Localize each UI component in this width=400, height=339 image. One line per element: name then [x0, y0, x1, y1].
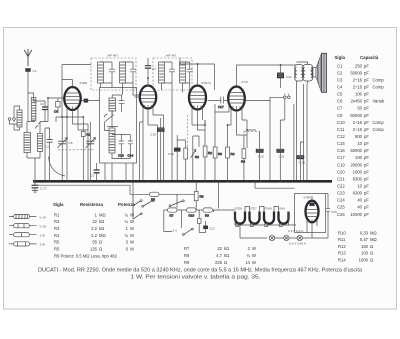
svg-text:kΩ: kΩ — [99, 219, 104, 224]
wire: speaker voice coil — [311, 70, 313, 75]
svg-text:Variab: Variab — [373, 99, 385, 104]
pickup jack — [270, 94, 290, 120]
svg-text:1 W. Per tensioni valvole v. t: 1 W. Per tensioni valvole v. tabella a p… — [131, 275, 261, 281]
svg-text:W: W — [130, 247, 134, 252]
svg-text:R10: R10 — [338, 230, 346, 235]
switch S2 — [133, 194, 185, 219]
heater V3 — [264, 207, 274, 224]
speaker LS — [313, 53, 327, 92]
svg-text:C 26: C 26 — [299, 161, 306, 165]
svg-text:R2: R2 — [208, 151, 212, 155]
output transformer T1 — [295, 62, 313, 88]
svg-text:6,3 V 0,45 A: 6,3 V 0,45 A — [289, 241, 307, 245]
capacitor C2 — [45, 128, 53, 181]
svg-text:½ W: ½ W — [40, 225, 46, 229]
switch S3 — [183, 228, 194, 235]
svg-text:C1: C1 — [33, 69, 37, 73]
svg-text:MΩ: MΩ — [370, 230, 377, 235]
resistor table rows — [54, 212, 134, 258]
capacitor C4 — [81, 99, 100, 103]
svg-text:MF 467: MF 467 — [108, 54, 119, 58]
ground bus — [33, 180, 332, 183]
resistor table header — [53, 202, 135, 207]
capacitor C19 — [150, 118, 165, 181]
legend resistor 3 W — [9, 242, 45, 247]
svg-text:40: 40 — [357, 205, 362, 210]
svg-text:Comp: Comp — [373, 120, 385, 125]
svg-text:R3: R3 — [218, 152, 222, 156]
svg-text:pF: pF — [364, 127, 369, 132]
svg-text:10: 10 — [357, 184, 362, 189]
svg-text:C1: C1 — [337, 63, 343, 68]
svg-text:10000: 10000 — [350, 212, 362, 217]
tube V5 6TB4 — [304, 196, 319, 239]
svg-text:2÷16: 2÷16 — [353, 85, 363, 90]
svg-text:100: 100 — [355, 155, 363, 160]
svg-text:1000: 1000 — [359, 258, 369, 263]
wire: MF2 leads — [162, 83, 190, 181]
svg-text:225: 225 — [215, 260, 223, 265]
svg-text:R5: R5 — [151, 197, 155, 201]
capacitor C4 — [123, 62, 137, 83]
capacitor C23 — [276, 120, 284, 181]
svg-text:Ω: Ω — [370, 258, 373, 263]
svg-text:R11: R11 — [338, 237, 346, 242]
svg-text:Ω: Ω — [99, 247, 102, 252]
svg-text:3 W: 3 W — [40, 243, 46, 247]
svg-text:pF: pF — [364, 169, 369, 174]
svg-text:pF: pF — [364, 134, 369, 139]
capacitor C5 — [90, 163, 100, 181]
svg-text:C2: C2 — [40, 102, 44, 106]
resistor R9 — [203, 208, 213, 217]
coil L6 — [159, 62, 165, 83]
svg-text:20000: 20000 — [350, 162, 362, 167]
svg-text:kΩ: kΩ — [224, 246, 229, 251]
svg-text:DUCATI - Mod. RR 2250. Onde me: DUCATI - Mod. RR 2250. Onde medie da 520… — [38, 268, 362, 274]
svg-text:W: W — [130, 219, 134, 224]
wire: gang link (dashed) — [58, 149, 95, 151]
RF coil upper — [28, 93, 36, 122]
svg-text:0,33: 0,33 — [360, 230, 369, 235]
svg-text:22: 22 — [217, 246, 222, 251]
capacitor C27 to ground — [32, 181, 47, 190]
svg-text:pF: pF — [364, 92, 369, 97]
svg-text:pF: pF — [364, 155, 369, 160]
svg-text:C2: C2 — [45, 145, 49, 149]
resistor table R7 R8 R9 — [184, 246, 256, 265]
capacitor C10 trimmer — [112, 95, 124, 110]
capacitor C25 — [326, 194, 337, 239]
capacitor C1 — [25, 68, 36, 121]
svg-text:2x450: 2x450 — [351, 99, 363, 104]
wire: RF interconnects — [48, 117, 83, 128]
svg-text:pF: pF — [364, 85, 369, 90]
svg-text:pF: pF — [364, 113, 369, 118]
wire: B+ rail — [229, 65, 296, 112]
svg-text:4,7: 4,7 — [216, 253, 222, 258]
resistor R4 — [226, 125, 235, 181]
svg-text:R4: R4 — [54, 233, 60, 238]
tube V1 6TE8 — [64, 80, 80, 131]
svg-text:500: 500 — [355, 134, 363, 139]
junction dots — [34, 180, 304, 183]
svg-text:C7: C7 — [152, 67, 156, 71]
svg-text:50: 50 — [357, 106, 362, 111]
antenna primary coil — [14, 106, 22, 130]
svg-text:C6: C6 — [69, 141, 73, 145]
terminal A — [8, 118, 16, 124]
capacitor C17 — [208, 97, 230, 110]
variable capacitor C6b — [86, 122, 96, 181]
svg-text:125: 125 — [90, 247, 98, 252]
wire: curved gang cord — [49, 157, 66, 177]
resistor R7 — [241, 135, 246, 181]
svg-text:C17: C17 — [218, 105, 224, 109]
svg-text:C16: C16 — [168, 152, 174, 156]
svg-text:2÷16: 2÷16 — [353, 77, 363, 82]
svg-text:R9: R9 — [205, 213, 209, 217]
svg-text:R5: R5 — [54, 247, 60, 252]
svg-text:pF: pF — [364, 120, 369, 125]
svg-text:Comp: Comp — [373, 85, 385, 90]
svg-text:pF: pF — [364, 162, 369, 167]
resistor R1 (grid leak) — [81, 117, 90, 181]
svg-text:C19: C19 — [150, 133, 156, 137]
svg-text:R2: R2 — [54, 219, 60, 224]
svg-text:pF: pF — [364, 63, 369, 68]
resistor R3 — [213, 104, 222, 181]
wire: V3 grid top — [180, 58, 215, 90]
capacitor C12 — [183, 62, 193, 83]
svg-text:C21: C21 — [286, 75, 292, 79]
legend resistor 1/4 W — [9, 214, 46, 219]
svg-text:50000: 50000 — [350, 113, 362, 118]
svg-text:Ω: Ω — [224, 260, 227, 265]
svg-text:40: 40 — [357, 198, 362, 203]
svg-text:W: W — [130, 226, 134, 231]
svg-text:100: 100 — [355, 92, 363, 97]
svg-text:6TE8: 6TE8 — [235, 207, 243, 211]
svg-text:2÷16: 2÷16 — [353, 120, 363, 125]
capacitor C21 — [277, 65, 292, 88]
svg-text:C11: C11 — [337, 127, 345, 132]
heater socket terminals — [236, 224, 282, 227]
svg-text:55: 55 — [92, 240, 97, 245]
svg-text:R13: R13 — [338, 251, 346, 256]
svg-text:μF: μF — [364, 198, 369, 203]
svg-text:6 V6: 6 V6 — [242, 80, 249, 84]
svg-text:C6: C6 — [337, 99, 343, 104]
svg-text:C17: C17 — [337, 155, 345, 160]
svg-text:C5: C5 — [90, 174, 94, 178]
svg-text:kΩ: kΩ — [224, 253, 229, 258]
svg-text:C21: C21 — [337, 176, 345, 181]
svg-text:C4: C4 — [337, 85, 343, 90]
svg-text:10: 10 — [357, 141, 362, 146]
svg-text:2,2: 2,2 — [91, 233, 97, 238]
svg-text:R6: R6 — [195, 155, 199, 159]
svg-text:R1: R1 — [87, 133, 91, 137]
svg-text:W: W — [252, 260, 256, 265]
svg-text:W: W — [252, 253, 256, 258]
legend resistor 1/2 W — [9, 224, 46, 229]
wire: detector — [192, 120, 205, 130]
svg-text:C16: C16 — [337, 148, 345, 153]
svg-text:R8: R8 — [184, 253, 190, 258]
heater V2 — [249, 207, 259, 224]
svg-text:Ω: Ω — [99, 240, 102, 245]
svg-text:2÷16: 2÷16 — [353, 127, 363, 132]
ground — [32, 190, 38, 192]
svg-text:Ω: Ω — [370, 244, 373, 249]
svg-text:Comp: Comp — [373, 77, 385, 82]
svg-text:pF: pF — [364, 148, 369, 153]
svg-text:C2: C2 — [337, 70, 343, 75]
svg-text:MΩ: MΩ — [99, 212, 106, 217]
svg-text:W: W — [130, 212, 134, 217]
svg-text:W: W — [130, 233, 134, 238]
wire: V1 top cap — [62, 65, 91, 118]
heater V1 — [235, 207, 245, 224]
svg-text:¼: ¼ — [247, 253, 251, 258]
wire: V2 leads — [135, 97, 164, 181]
IF transformer MF1 box — [91, 54, 136, 90]
rectifier box — [295, 194, 326, 233]
svg-text:pF: pF — [364, 70, 369, 75]
capacitor C11 — [162, 62, 176, 83]
tube V3 6TE7 — [189, 64, 206, 130]
svg-text:C23: C23 — [279, 155, 285, 159]
svg-text:R4: R4 — [241, 160, 245, 164]
capacitor table header — [335, 55, 379, 60]
resistor R5 — [150, 192, 160, 201]
svg-text:W: W — [130, 240, 134, 245]
svg-text:C5: C5 — [337, 92, 343, 97]
svg-text:μF: μF — [364, 184, 369, 189]
svg-text:6300: 6300 — [353, 176, 363, 181]
svg-text:pF: pF — [364, 141, 369, 146]
svg-text:C26: C26 — [337, 212, 345, 217]
svg-text:Resistenza: Resistenza — [80, 202, 103, 207]
pilot lamps — [269, 235, 302, 240]
svg-text:kΩ: kΩ — [99, 226, 104, 231]
resistor R8 — [194, 181, 203, 210]
svg-text:Comp: Comp — [373, 127, 385, 132]
svg-text:C7: C7 — [337, 106, 343, 111]
tube V4 6V6 — [228, 65, 245, 135]
potentiometer R6 — [184, 140, 199, 181]
wire: osc box to bus — [105, 163, 133, 181]
svg-text:100: 100 — [361, 251, 369, 256]
svg-text:C23: C23 — [337, 191, 345, 196]
wire: AF path — [177, 136, 199, 181]
svg-text:C10: C10 — [337, 120, 345, 125]
antenna — [24, 49, 32, 66]
resistor R11 — [197, 210, 201, 233]
wire: dropper row — [164, 194, 235, 231]
capacitor C20 — [256, 131, 264, 181]
svg-text:6TB4: 6TB4 — [304, 196, 312, 200]
IF transformer MF2 box — [153, 54, 192, 90]
coil L4 — [109, 98, 116, 111]
svg-text:pF: pF — [364, 176, 369, 181]
svg-text:R3: R3 — [54, 226, 60, 231]
svg-text:pF: pF — [364, 106, 369, 111]
variable capacitor C6a — [58, 117, 73, 181]
coil L3 — [120, 62, 126, 83]
resistor R10 — [187, 208, 197, 217]
svg-text:50000: 50000 — [350, 70, 362, 75]
svg-text:6300: 6300 — [353, 191, 363, 196]
trimmer C3 — [54, 98, 60, 114]
svg-text:pF: pF — [364, 99, 369, 104]
svg-text:C3: C3 — [337, 77, 343, 82]
wire: AVC dashed — [244, 131, 260, 135]
svg-text:2,2: 2,2 — [91, 226, 97, 231]
svg-text:0,47: 0,47 — [360, 237, 369, 242]
svg-text:1 W: 1 W — [40, 234, 46, 238]
svg-text:pF: pF — [364, 212, 369, 217]
capacitor C14 — [128, 135, 134, 158]
svg-text:R14: R14 — [338, 258, 346, 263]
svg-text:Ω: Ω — [370, 251, 373, 256]
svg-text:R7: R7 — [184, 246, 190, 251]
svg-text:R12: R12 — [338, 244, 346, 249]
legend resistor 1 W — [9, 233, 45, 238]
svg-text:¼: ¼ — [125, 233, 129, 238]
tube V2 6TM8 — [140, 78, 156, 125]
wire: V1 cathode network — [56, 117, 88, 181]
svg-text:C3: C3 — [54, 110, 58, 114]
resistor R2 (diode load) — [203, 120, 212, 181]
svg-text:R1: R1 — [54, 212, 60, 217]
svg-text:C24: C24 — [337, 198, 345, 203]
switch S1 — [104, 111, 118, 131]
svg-text:Sigla: Sigla — [53, 202, 64, 207]
capacitor C22 — [199, 221, 215, 233]
svg-text:pF: pF — [364, 191, 369, 196]
svg-text:R10: R10 — [189, 213, 195, 217]
svg-text:150: 150 — [361, 244, 369, 249]
wire: plate supply rail — [243, 84, 307, 181]
svg-text:14: 14 — [245, 260, 250, 265]
capacitor C7 — [145, 58, 162, 78]
svg-text:6TM8: 6TM8 — [264, 207, 272, 211]
svg-text:R7: R7 — [170, 213, 174, 217]
capacitor C3 — [101, 62, 116, 83]
antenna coil L1 — [24, 122, 48, 181]
coil L5 — [109, 128, 115, 153]
svg-text:22: 22 — [92, 219, 97, 224]
svg-text:C12: C12 — [337, 134, 345, 139]
svg-text:W: W — [252, 246, 256, 251]
svg-text:Potenza: Potenza — [118, 202, 135, 207]
svg-text:6TE7A: 6TE7A — [202, 81, 212, 85]
wire: V4 grid network — [215, 112, 247, 148]
svg-text:C22: C22 — [337, 184, 345, 189]
svg-text:¼: ¼ — [125, 212, 129, 217]
svg-text:R6 Potenz. 0,5 MΩ Lesa, tipo: R6 Potenz. 0,5 MΩ Lesa, tipo 482 — [54, 254, 118, 259]
svg-text:MΩ: MΩ — [370, 237, 377, 242]
svg-text:C22: C22 — [209, 227, 215, 231]
svg-text:C25: C25 — [337, 205, 345, 210]
wire: oscillator internals — [105, 110, 131, 159]
coil L7 — [180, 62, 186, 83]
svg-text:6TE7: 6TE7 — [249, 207, 257, 211]
coil L2 — [98, 62, 104, 83]
wire: MF1 leads — [101, 83, 141, 97]
junction dots (wire crossings) — [47, 63, 281, 131]
svg-text:μF: μF — [364, 205, 369, 210]
svg-text:C 27: C 27 — [40, 187, 47, 191]
svg-text:C20: C20 — [258, 155, 264, 159]
svg-text:6V6: 6V6 — [280, 207, 286, 211]
svg-text:R9: R9 — [184, 260, 190, 265]
wire: RF grid — [45, 98, 64, 181]
heater V4 — [279, 207, 289, 224]
svg-text:MΩ: MΩ — [99, 233, 106, 238]
svg-text:6,3 V 0,3 A: 6,3 V 0,3 A — [288, 229, 304, 233]
svg-text:R5: R5 — [54, 240, 60, 245]
svg-text:MF 467: MF 467 — [166, 54, 177, 58]
svg-text:6TE8: 6TE8 — [80, 81, 88, 85]
svg-text:50000: 50000 — [350, 148, 362, 153]
capacitor C26 — [294, 104, 305, 181]
band switch arcs — [36, 121, 41, 128]
svg-text:¼: ¼ — [125, 219, 129, 224]
resistor table R10-R14 — [338, 230, 377, 262]
wire: heater series links — [235, 207, 296, 226]
svg-text:Capacità: Capacità — [360, 55, 379, 60]
svg-text:C20: C20 — [337, 169, 345, 174]
svg-text:¼ W: ¼ W — [40, 215, 46, 219]
wire: lamp line — [240, 225, 328, 238]
svg-text:Sigla: Sigla — [335, 55, 346, 60]
capacitor C13 — [118, 135, 124, 158]
svg-text:250: 250 — [355, 63, 363, 68]
capacitor C16 (det bypass) — [168, 135, 181, 181]
svg-text:R4: R4 — [231, 152, 235, 156]
oscillator box — [100, 88, 137, 164]
capacitor table rows — [337, 63, 385, 217]
wire: below-bus rails — [35, 181, 295, 208]
svg-text:R8: R8 — [200, 195, 204, 199]
svg-text:C15: C15 — [337, 141, 345, 146]
resistor R12 — [168, 208, 178, 217]
wire: AF coupling (dashed mech link) — [187, 115, 189, 147]
svg-text:1000: 1000 — [353, 169, 363, 174]
svg-text:C19: C19 — [337, 162, 345, 167]
capacitor C2a — [34, 98, 48, 122]
svg-text:C9: C9 — [337, 113, 343, 118]
svg-text:pF: pF — [364, 77, 369, 82]
